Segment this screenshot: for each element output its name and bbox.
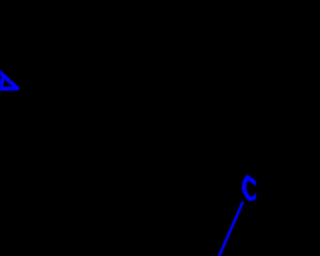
ring/rounded shape (right edge, clipped) [244, 177, 259, 199]
triangle (top-left, clipped by left edge) [0, 69, 17, 89]
diagonal line (bottom-right) [219, 203, 243, 256]
